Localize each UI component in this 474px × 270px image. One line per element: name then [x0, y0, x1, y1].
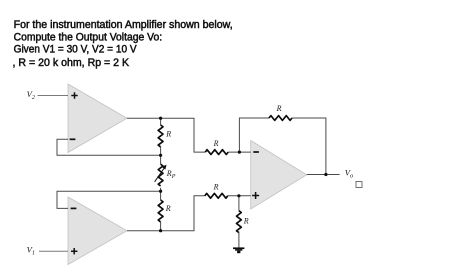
svg-text:Compute the Output Voltage Vo:: Compute the Output Voltage Vo:	[14, 31, 163, 43]
wire U1 output to node 1 and corner down to R3 row	[127, 118, 205, 152]
svg-text:Given V1 = 30 V, V2 = 10 V: Given V1 = 30 V, V2 = 10 V	[14, 44, 138, 56]
svg-text:R: R	[213, 182, 219, 191]
potentiometer arrow for Rp	[155, 168, 165, 182]
op-amp U2 (bottom-left buffer)	[68, 197, 127, 265]
wire feedback loop up from inverting node	[239, 118, 269, 152]
wire R5 to output node	[292, 118, 326, 175]
ground symbol	[233, 247, 244, 253]
wire R2 to node 4	[160, 221, 162, 231]
wire V1 to U2 + input	[39, 250, 68, 252]
svg-text:R: R	[165, 130, 171, 139]
problem statement text	[13, 19, 233, 69]
resistor R5 (feedback R of U3)	[269, 116, 292, 121]
wire U1 inverting feedback to node 2	[57, 139, 161, 155]
potentiometer Rp (adjustable gain resistor)	[158, 164, 163, 186]
wire Rp to R2 across node 3	[160, 188, 162, 200]
op-amp U3 (output difference amp)	[251, 141, 307, 210]
wire U2 output to node 4 and corner up to R4 row	[127, 196, 205, 231]
svg-text:For the instrumentation Amplif: For the instrumentation Amplifier shown …	[14, 19, 233, 31]
svg-text:R: R	[243, 216, 249, 225]
svg-text:, R = 20 k ohm, Rp = 2 K: , R = 20 k ohm, Rp = 2 K	[13, 57, 130, 69]
resistor R2 (bottom of divider chain)	[158, 200, 163, 222]
junction at U3 non-inverting input	[237, 194, 240, 197]
svg-text:R: R	[276, 104, 282, 113]
junction at U3 output	[324, 173, 327, 176]
wire R4 to U3 non-inverting input	[228, 195, 251, 197]
svg-text:R: R	[165, 204, 171, 213]
junction node 1 (U1 output / divider top)	[159, 117, 162, 120]
resistor R3 (series R to U3 inverting input)	[205, 150, 228, 155]
wire U3 output to Vo	[307, 174, 340, 176]
wire grounded resistor from non-inverting node	[238, 196, 240, 211]
junction node 2 (R1/Rp, U1 feedback)	[159, 154, 162, 157]
wire V2 to U1 + input	[38, 95, 69, 97]
junction node 3 (Rp/R2, U2 feedback)	[159, 190, 162, 193]
wire R6 to ground	[238, 232, 240, 248]
junction node 4 (U2 output / divider bottom)	[159, 229, 162, 232]
resistor R6 (ground leg at U3 + input)	[236, 211, 241, 233]
junction at U3 inverting input	[238, 151, 241, 154]
wire vertical divider chain top segment	[160, 118, 162, 125]
resistor R4 (series R to U3 non-inverting input)	[205, 193, 228, 198]
resistor R1 (top of divider chain)	[158, 125, 163, 147]
op-amp U1 (top-left buffer)	[68, 84, 127, 153]
svg-text:R: R	[213, 139, 219, 148]
wire R3 to U3 inverting input	[228, 151, 251, 153]
answer box	[356, 182, 362, 188]
wire R1 to Rp across node 2	[160, 147, 162, 164]
wire U2 inverting feedback to node 3	[57, 191, 161, 208]
